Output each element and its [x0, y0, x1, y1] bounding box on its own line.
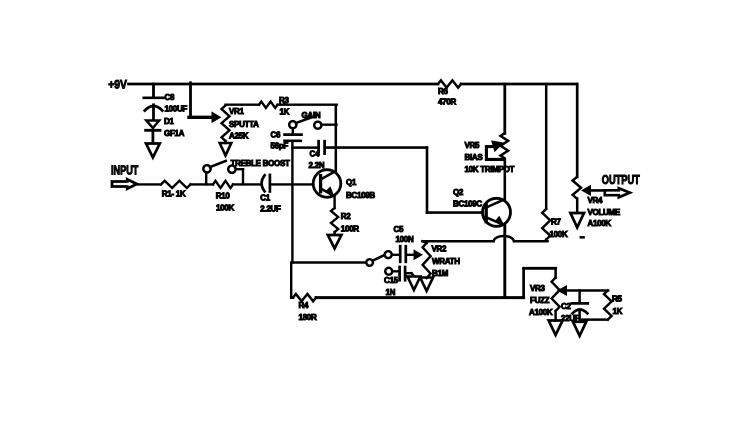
svg-text:VR4: VR4	[588, 196, 604, 205]
svg-text:FUZZ: FUZZ	[530, 296, 550, 305]
svg-text:1N: 1N	[386, 288, 396, 297]
svg-text:VR2: VR2	[432, 245, 448, 254]
svg-text:TREBLE BOOST: TREBLE BOOST	[231, 159, 290, 168]
svg-text:A100K: A100K	[588, 219, 612, 228]
svg-text:100K: 100K	[216, 203, 234, 212]
svg-text:100K: 100K	[550, 230, 568, 239]
svg-text:R5: R5	[612, 295, 622, 304]
svg-text:C4: C4	[310, 149, 320, 158]
svg-text:22UF: 22UF	[561, 314, 580, 323]
svg-text:SPUTTA: SPUTTA	[229, 120, 259, 129]
svg-text:VR5: VR5	[465, 141, 481, 150]
svg-text:D1: D1	[164, 117, 174, 126]
svg-text:VR1: VR1	[229, 107, 245, 116]
svg-text:R4: R4	[299, 301, 309, 310]
svg-text:R3: R3	[279, 96, 289, 105]
svg-text:C5: C5	[394, 225, 404, 234]
svg-text:C15: C15	[384, 276, 399, 285]
svg-text:VOLUME: VOLUME	[588, 208, 621, 217]
svg-text:A25K: A25K	[229, 131, 249, 140]
svg-text:BC109B: BC109B	[346, 191, 375, 200]
svg-text:2.2UF: 2.2UF	[260, 204, 281, 213]
svg-text:BC109C: BC109C	[453, 199, 482, 208]
svg-text:WRATH: WRATH	[432, 257, 460, 266]
svg-text:OUTPUT: OUTPUT	[602, 174, 640, 188]
svg-text:VR3: VR3	[530, 284, 546, 293]
svg-text:GAIN: GAIN	[302, 111, 321, 120]
svg-text:100R: 100R	[341, 224, 359, 233]
svg-text:GF1A: GF1A	[164, 129, 185, 138]
svg-text:Q1: Q1	[346, 178, 357, 187]
svg-text:10K TRIMPOT: 10K TRIMPOT	[465, 165, 515, 174]
svg-text:1K: 1K	[613, 307, 623, 316]
svg-text:A100K: A100K	[529, 308, 553, 317]
svg-text:470R: 470R	[438, 97, 456, 106]
svg-text:R1- 1K: R1- 1K	[162, 189, 186, 198]
svg-text:INPUT: INPUT	[111, 164, 139, 178]
svg-text:100N: 100N	[396, 235, 414, 244]
svg-text:56pF: 56pF	[271, 141, 289, 150]
svg-text:R10: R10	[216, 191, 231, 200]
svg-text:BIAS: BIAS	[465, 153, 484, 162]
svg-text:C2: C2	[561, 302, 571, 311]
svg-text:R7: R7	[551, 218, 561, 227]
svg-text:B1M: B1M	[432, 269, 449, 278]
svg-text:R6: R6	[438, 87, 448, 96]
svg-text:Q2: Q2	[453, 188, 464, 197]
svg-text:+9V: +9V	[108, 79, 127, 92]
svg-text:1K: 1K	[280, 108, 290, 117]
svg-text:C6: C6	[271, 130, 281, 139]
svg-text:100UF: 100UF	[165, 105, 188, 114]
svg-text:R2: R2	[341, 212, 351, 221]
svg-text:180R: 180R	[299, 313, 317, 322]
svg-text:C1: C1	[260, 193, 270, 202]
svg-text:2.2N: 2.2N	[309, 161, 325, 170]
svg-text:C8: C8	[165, 93, 175, 102]
